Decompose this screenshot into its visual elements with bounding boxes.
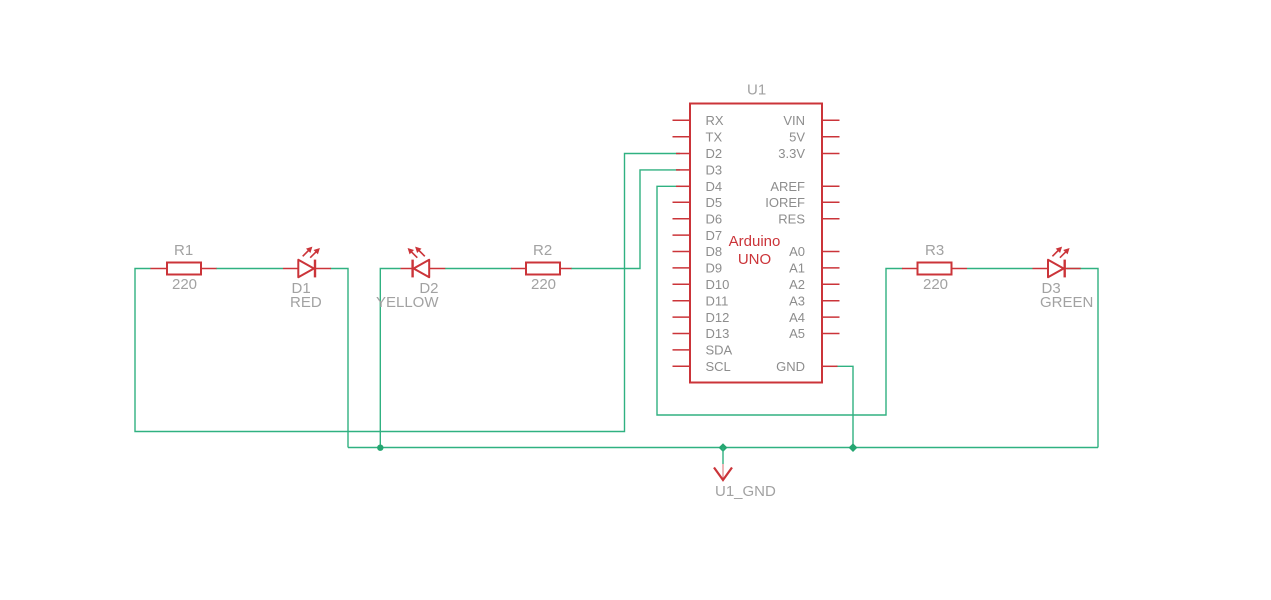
svg-text:D6: D6 [706, 211, 723, 226]
wire R3 right to D3 anode [967, 268, 1033, 270]
svg-text:YELLOW: YELLOW [376, 294, 439, 311]
pin A5 stub [822, 333, 840, 335]
svg-text:D10: D10 [706, 277, 730, 292]
pin RES stub [822, 218, 840, 220]
svg-text:D11: D11 [706, 293, 729, 308]
svg-text:D13: D13 [706, 326, 730, 341]
pin 5V stub [822, 136, 840, 138]
svg-text:SDA: SDA [706, 343, 733, 358]
resistor R2 [511, 242, 572, 293]
pin D3 stub [676, 169, 690, 171]
svg-text:U1: U1 [747, 82, 766, 99]
svg-text:VIN: VIN [783, 113, 805, 128]
svg-text:A5: A5 [789, 326, 805, 341]
svg-text:A4: A4 [789, 310, 805, 325]
wire D3 cathode to ground bus [1067, 269, 1099, 448]
svg-text:D9: D9 [706, 261, 723, 276]
svg-text:A2: A2 [789, 277, 805, 292]
svg-text:D12: D12 [706, 310, 730, 325]
LED D2 (YELLOW) [376, 247, 445, 311]
svg-text:AREF: AREF [770, 179, 805, 194]
wire R1 right to D1 anode [216, 268, 283, 270]
svg-text:D4: D4 [706, 179, 723, 194]
pin TX stub [673, 136, 691, 138]
svg-text:R1: R1 [174, 242, 193, 259]
pin D8 stub [673, 251, 691, 253]
wire net D2: R1 left lead to Arduino D2 pin [135, 154, 680, 432]
LED D1 (RED) [283, 247, 331, 311]
wire Arduino GND pin to ground bus [836, 366, 853, 447]
microcontroller U1 Arduino UNO [690, 82, 822, 383]
pin 3.3V stub [822, 153, 840, 155]
pin RX stub [673, 119, 691, 121]
svg-text:220: 220 [172, 276, 197, 293]
pin D6 stub [673, 218, 691, 220]
svg-text:5V: 5V [789, 129, 805, 144]
svg-text:RX: RX [706, 113, 724, 128]
wire D2 cathode to ground bus [380, 269, 401, 448]
svg-text:Arduino: Arduino [729, 233, 781, 250]
svg-text:UNO: UNO [738, 251, 771, 268]
svg-text:SCL: SCL [706, 359, 731, 374]
pin VIN stub [822, 119, 840, 121]
wire D1 cathode to ground bus [331, 269, 349, 448]
svg-text:GND: GND [776, 359, 805, 374]
wire net D4: Arduino D4 pin to R3 left lead [657, 186, 903, 415]
pin D4 stub [676, 185, 690, 187]
svg-text:GREEN: GREEN [1040, 294, 1093, 311]
LED D3 (GREEN) [1033, 247, 1094, 311]
svg-text:D7: D7 [706, 228, 723, 243]
pin D9 stub [673, 267, 691, 269]
junction dot at ground symbol / bus [719, 443, 728, 452]
pin D7 stub [673, 234, 691, 236]
pin SCL stub [673, 365, 691, 367]
svg-text:TX: TX [706, 129, 723, 144]
svg-text:RES: RES [778, 211, 805, 226]
svg-text:D8: D8 [706, 244, 723, 259]
pin AREF stub [822, 185, 840, 187]
resistor R3 [902, 242, 967, 293]
junction dot at Arduino GND wire / bus [849, 443, 858, 452]
junction dot at D2 cathode / bus [377, 445, 383, 451]
pin IOREF stub [822, 201, 840, 203]
pin D13 stub [673, 333, 691, 335]
svg-text:A0: A0 [789, 244, 805, 259]
svg-text:R3: R3 [925, 242, 944, 259]
ground symbol U1_GND [714, 448, 776, 501]
svg-text:A3: A3 [789, 293, 805, 308]
svg-text:U1_GND: U1_GND [715, 483, 776, 500]
pin A3 stub [822, 300, 840, 302]
pin D5 stub [673, 201, 691, 203]
pin A1 stub [822, 267, 840, 269]
pin A4 stub [822, 316, 840, 318]
svg-text:220: 220 [531, 276, 556, 293]
pin SDA stub [673, 349, 691, 351]
svg-text:D3: D3 [706, 163, 723, 178]
svg-text:D5: D5 [706, 195, 723, 210]
pin D10 stub [673, 283, 691, 285]
wire D2 anode to R2 left lead [445, 268, 512, 270]
pin D12 stub [673, 316, 691, 318]
pin D11 stub [673, 300, 691, 302]
svg-text:IOREF: IOREF [765, 195, 805, 210]
wire ground bus [348, 447, 1098, 449]
pin GND stub [822, 365, 838, 367]
svg-text:RED: RED [290, 294, 322, 311]
pin A2 stub [822, 283, 840, 285]
svg-text:D2: D2 [706, 146, 723, 161]
pin A0 stub [822, 251, 840, 253]
pin D2 stub [676, 153, 690, 155]
wire net D3: R2 right lead to Arduino D3 pin [571, 170, 680, 269]
svg-text:3.3V: 3.3V [778, 146, 805, 161]
svg-text:R2: R2 [533, 242, 552, 259]
svg-text:220: 220 [923, 276, 948, 293]
svg-text:A1: A1 [789, 261, 805, 276]
resistor R1 [151, 242, 217, 293]
